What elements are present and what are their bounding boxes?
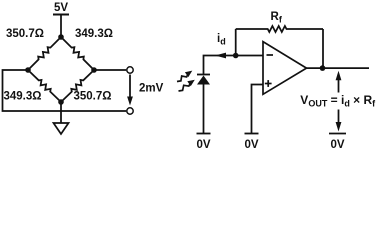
photodiode D1 light arrows <box>177 73 191 91</box>
photodiode D1 cathode bar <box>197 74 210 76</box>
op-amp plus sign <box>265 83 272 85</box>
ground symbol <box>54 123 69 134</box>
wire non-inverting input to 0V <box>252 85 264 134</box>
wire bridge right node to top terminal <box>94 69 126 71</box>
Vout arrowhead up <box>336 71 342 81</box>
resistor R2 349.3 top-right <box>61 37 94 70</box>
inverting node junction dot <box>233 53 239 59</box>
0V bar Vout <box>329 133 346 135</box>
output node junction dot <box>320 65 326 71</box>
node dot left <box>25 67 31 73</box>
wire bridge bottom node to ground <box>60 102 62 123</box>
2mV arrow wire <box>129 75 131 98</box>
svg-text:0V: 0V <box>244 139 258 151</box>
svg-text:Rf: Rf <box>271 11 283 25</box>
5V supply bar <box>53 14 69 16</box>
Vout measure arrow shaft <box>338 79 340 124</box>
white gap for Vout text <box>296 93 378 110</box>
svg-text:5V: 5V <box>54 2 68 14</box>
2mV arrowhead <box>127 97 133 106</box>
svg-text:349.3Ω: 349.3Ω <box>4 91 42 103</box>
svg-text:id: id <box>217 33 226 47</box>
node dot top <box>58 34 64 40</box>
terminal top circle <box>127 67 133 73</box>
resistor R1 350.7 top-left <box>28 37 61 70</box>
wire photodiode anode down to 0V <box>203 85 205 134</box>
wire 5V to bridge top node <box>60 15 62 38</box>
resistor Rf <box>236 26 323 32</box>
photodiode D1 triangle <box>197 76 210 85</box>
svg-text:349.3Ω: 349.3Ω <box>75 28 113 40</box>
Vout arrowhead down <box>336 122 342 132</box>
svg-text:350.7Ω: 350.7Ω <box>74 91 112 103</box>
svg-text:0V: 0V <box>196 139 210 151</box>
output wire <box>307 67 370 69</box>
svg-text:2mV: 2mV <box>139 83 164 95</box>
node dot bottom <box>58 99 64 105</box>
node dot right <box>91 67 97 73</box>
resistor R4 350.7 bottom-right <box>61 70 94 102</box>
feedback riser down to output <box>322 29 324 68</box>
wire bridge left node to left rail <box>3 70 127 111</box>
svg-text:350.7Ω: 350.7Ω <box>6 28 44 40</box>
op-amp U1 triangle <box>263 42 307 95</box>
terminal bottom circle <box>127 108 133 114</box>
wire photodiode cathode up to id wire <box>204 56 264 75</box>
feedback riser from inverting node <box>235 29 237 56</box>
resistor R3 349.3 bottom-left <box>28 70 61 102</box>
svg-text:0V: 0V <box>330 139 344 151</box>
id current arrowhead <box>215 53 226 59</box>
op-amp minus sign <box>267 54 274 56</box>
0V bar non-inverting <box>245 133 259 135</box>
0V bar photodiode <box>197 133 211 135</box>
